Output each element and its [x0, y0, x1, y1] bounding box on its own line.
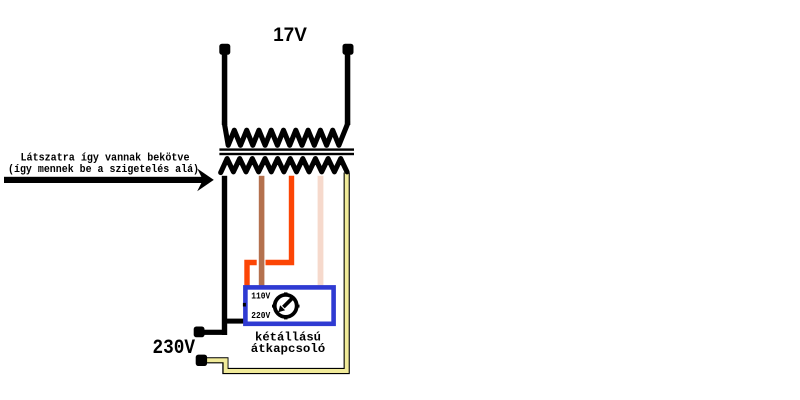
- knob tick right: [297, 305, 300, 308]
- svg-text:Látszatra így vannak bekötve: Látszatra így vannak bekötve: [21, 153, 190, 165]
- wire primary left vertical: [222, 176, 227, 335]
- wire from 230V terminal: [200, 330, 228, 335]
- knob tick bottom: [284, 317, 288, 320]
- annotation arrow: [4, 177, 206, 183]
- inductor L2 primary winding: [221, 159, 347, 173]
- svg-text:17V: 17V: [273, 25, 307, 46]
- terminal dot 230V lower: [196, 355, 207, 366]
- inductor L1 secondary winding: [225, 121, 348, 145]
- wire tap orange segment A: [266, 176, 292, 263]
- wire tap orange segment B: [247, 263, 257, 288]
- switch box S1: [245, 287, 333, 323]
- svg-text:230V: 230V: [153, 337, 196, 360]
- rotary knob circle: [275, 295, 297, 317]
- wire tap brown: [259, 176, 265, 287]
- wire tap pale: [318, 176, 324, 286]
- wire branch to 220V tap: [225, 319, 246, 324]
- svg-text:átkapcsoló: átkapcsoló: [251, 342, 326, 356]
- wire yellow core: [203, 173, 347, 372]
- switch 110V contact stub: [243, 303, 246, 307]
- terminal dot top-right: [343, 44, 354, 55]
- svg-text:(így mennek be a szigetelés al: (így mennek be a szigetelés alá): [8, 164, 199, 176]
- svg-text:220V: 220V: [251, 310, 270, 321]
- terminal dot top-left: [219, 44, 230, 55]
- knob pointer arrow: [283, 299, 291, 307]
- transformer core line lower: [219, 153, 354, 155]
- wire secondary left: [222, 52, 228, 125]
- transformer core line upper: [219, 148, 354, 150]
- knob tick left: [272, 305, 275, 308]
- terminal dot 230V upper: [194, 327, 205, 338]
- wire yellow outline: [203, 173, 347, 372]
- knob tick top: [284, 292, 288, 295]
- wire secondary right: [345, 52, 351, 125]
- svg-text:110V: 110V: [251, 291, 270, 302]
